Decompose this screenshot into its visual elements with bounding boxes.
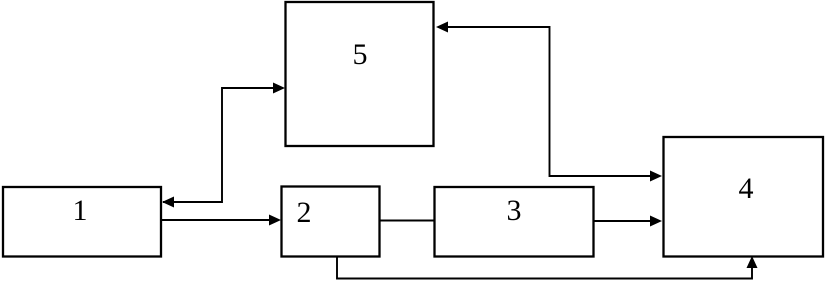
svg-text:1: 1 [73, 194, 88, 227]
wire block5 to block4 (bidirectional) [438, 27, 653, 176]
arrowhead into block1 right edge [162, 197, 174, 208]
arrowhead into block4 left edge (upper) [650, 171, 662, 182]
block 4 [664, 137, 824, 257]
block 5 [286, 2, 434, 146]
wire block3 to block4 [594, 220, 653, 222]
block 3 [435, 187, 594, 257]
arrowhead into block5 right edge [436, 22, 448, 33]
arrowhead into block2 left edge [269, 215, 281, 226]
svg-text:3: 3 [507, 194, 522, 227]
block 2 [282, 187, 380, 257]
block 1 [3, 187, 161, 257]
wire block1 to block2 [162, 219, 272, 221]
wire block2 to block3 [380, 220, 434, 222]
wire block2 bottom to block4 bottom [337, 257, 752, 279]
svg-text:2: 2 [297, 196, 312, 229]
svg-text:5: 5 [353, 38, 368, 71]
svg-text:4: 4 [739, 172, 754, 205]
arrowhead into block4 left edge (lower) [650, 216, 662, 227]
wire block1 to block5 (bidirectional) [163, 88, 283, 202]
arrowhead into block5 left edge [273, 83, 285, 94]
arrowhead into block4 bottom edge [747, 256, 758, 268]
